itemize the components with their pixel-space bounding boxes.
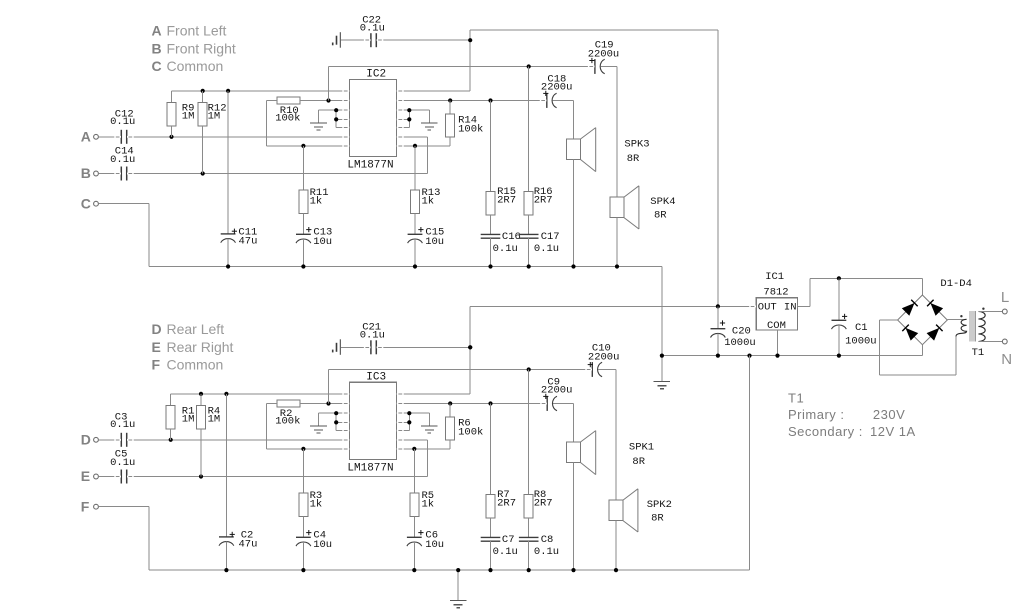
junction output1/R15 [488,98,492,102]
junction pin/R11 [301,144,305,148]
node label A legend [152,23,227,39]
label R13 value [422,187,441,207]
label T1 primary spec [788,407,905,422]
wire C common to ground bus [98,204,662,267]
label C7 value [493,534,518,558]
wire stub to C22 [341,39,371,41]
junction rear bus/ground [456,568,460,572]
label R15 value [497,186,516,206]
junction B/R12 [201,171,205,175]
resistor R6 [397,404,455,449]
junction bus/C15 [413,264,417,268]
junction bus/C13 [301,264,305,268]
node label C legend [152,58,224,74]
node B input terminal [81,165,99,181]
junction bus/C17 [527,264,531,268]
capacitor C1 (electrolytic) [832,278,847,355]
svg-text:1M: 1M [182,111,195,123]
junction left bracket pin4 [334,117,338,121]
label C20 value [720,320,756,349]
junction gnd/rear bus [747,354,751,358]
svg-text:10u: 10u [425,236,444,248]
node E input terminal [81,468,99,484]
svg-text:C: C [81,195,91,211]
svg-text:1000u: 1000u [724,337,756,349]
wire C3 to IC pin (net D) [127,439,349,441]
phase dot secondary [960,315,962,317]
svg-text:B: B [81,165,91,181]
svg-text:2R7: 2R7 [497,194,516,206]
svg-text:Rear Left: Rear Left [167,321,225,337]
pin gaps IC1 [749,306,804,308]
label C13 value [306,226,332,248]
label C19 value [588,39,620,63]
label R11 value [310,187,329,207]
junction E/R4 [199,474,203,478]
svg-text:1k: 1k [310,195,323,207]
svg-text:1k: 1k [422,498,435,510]
capacitor C22 [371,33,376,47]
node label E legend [152,339,234,355]
label C21 value [360,321,385,341]
svg-text:100k: 100k [275,415,300,427]
label C8 value [534,534,559,558]
svg-text:0.1u: 0.1u [360,22,385,34]
wire SPK4 to bus [616,218,618,267]
wire F common to ground bus [98,507,749,570]
svg-text:0.1u: 0.1u [493,243,518,255]
svg-text:Front Right: Front Right [167,40,236,56]
label R14 value [458,115,483,136]
capacitor C22 stub [333,32,341,48]
junction bias/C2 [224,392,228,396]
svg-text:2200u: 2200u [588,351,620,363]
junction C21/V+ riser [468,345,472,349]
svg-text:1M: 1M [182,414,195,426]
label R12 value [208,102,227,122]
label SPK3 value [624,139,649,165]
capacitor C18 (electrolytic) [547,93,557,108]
junction output2/R16 [527,64,531,68]
junction pin/R5 [412,447,416,451]
label R4 value [208,405,221,425]
diode D2 (top-right) [930,303,943,316]
svg-text:47u: 47u [239,235,258,247]
wire B input to C14 [98,173,121,175]
resistor R10 [267,97,350,104]
node D input terminal [81,431,99,447]
svg-text:E: E [152,339,161,355]
label C3 value [110,412,135,432]
resistor R9 [167,91,176,137]
speaker SPK4 [610,186,639,229]
junction R10/output2 riser [326,98,330,102]
junction output1/R6 [448,401,452,405]
wire IC3 V+ pin to decoupling rail [397,306,471,394]
junction OUT/C20 [716,304,720,308]
label C5 value [110,449,135,469]
svg-text:8R: 8R [632,456,645,468]
svg-text:8R: 8R [651,512,664,524]
capacitor C9 (electrolytic) [547,396,557,411]
wire A input to C12 [98,136,121,138]
transformer T1 secondary winding [956,319,967,336]
pin gaps IC3 [342,393,403,450]
junction gnd/COM [775,354,779,358]
wire C22 to V+ node [377,39,470,41]
label C1 value [842,314,877,348]
label C2 value [230,529,258,550]
wire C21 to V+ node [377,346,470,348]
wire C10 to SPK2 [598,370,616,501]
junction bus/SPK4 [615,264,619,268]
svg-text:1k: 1k [422,195,435,207]
wire stub to C21 [341,346,371,348]
capacitor C10 (electrolytic) [592,362,602,377]
resistor R7 capacitor C7 zobel [481,404,501,571]
capacitor C21 [371,340,376,354]
wire power ground bus [662,355,923,357]
resistor R1 [166,394,175,440]
svg-text:A: A [81,128,91,144]
resistor R15 capacitor C16 zobel [481,101,501,267]
svg-text:SPK2: SPK2 [647,499,672,511]
wire C12 to IC pin (net A) [127,136,349,138]
junction pin/R13 [413,144,417,148]
resistor R2 [267,400,350,407]
label R6 value [458,418,483,439]
junction left bracket pin4 [334,420,338,424]
wire IC2 left pins 3-5 bracket [319,110,350,127]
wire rear section V- feed [749,356,751,570]
wire output1 net [397,100,547,102]
phase dot primary [982,308,984,310]
wire IC3 left pins 3-5 bracket [319,413,350,430]
junction bus/SPK1 [571,568,575,572]
resistor R14 [397,101,455,146]
junction OUT/C21 riser [468,345,472,349]
label C14 value [110,146,135,166]
svg-text:SPK3: SPK3 [624,139,649,151]
junction left bracket pin3 [334,108,338,112]
svg-text:LM1877N: LM1877N [347,159,393,171]
svg-text:C: C [152,58,162,74]
diode D1 (top-left) [902,303,915,316]
ground rear amp [450,570,467,608]
wire C14 to IC right pin (net B) [127,137,427,174]
node L terminal [1001,289,1009,314]
junction bias/C11 [226,89,230,93]
resistor R8 capacitor C8 zobel [519,370,539,571]
ground IC3 left [310,426,327,433]
wire bias bus [172,90,350,92]
junction bias/R12 [201,89,205,93]
svg-text:1k: 1k [310,498,323,510]
label SPK1 value [629,442,654,468]
svg-text:1000u: 1000u [845,336,877,348]
wire top bus to power ground bus [661,267,663,356]
transformer T1 core [970,311,975,341]
svg-text:C17: C17 [541,231,560,243]
svg-text:8R: 8R [627,153,640,165]
svg-text:N: N [1001,351,1012,368]
svg-text:10u: 10u [313,236,332,248]
wire bridge AC left loop [880,320,956,375]
transformer T1 primary winding [978,312,985,342]
svg-text:Primary :: Primary : [788,407,845,422]
wire SPK2 to bus [615,521,617,570]
svg-text:IC1: IC1 [765,271,784,283]
svg-text:0.1u: 0.1u [534,546,559,558]
svg-text:C7: C7 [502,534,515,546]
svg-text:F: F [81,498,90,514]
label R5 value [422,490,435,510]
junction bus/SPK2 [614,568,618,572]
svg-text:T1: T1 [972,347,985,359]
junction A/R9 [169,135,173,139]
node label F legend [152,357,224,373]
svg-text:C1: C1 [855,322,868,334]
node F input terminal [81,498,99,514]
junction D/R1 [169,438,173,442]
label R1 value [182,405,195,425]
ground IC3 right [421,426,438,433]
label R10 value [275,105,300,125]
junction output1/R14 [448,98,452,102]
junction gnd bus/top amp bus [660,354,664,358]
wire IC1 COM to ground bus [777,330,779,356]
junction bus/C6 [412,568,416,572]
junction bus/C7 [488,568,492,572]
svg-text:100k: 100k [458,124,483,136]
node label B legend [152,40,236,56]
junction bus/C4 [301,568,305,572]
svg-text:47u: 47u [239,538,258,550]
svg-text:D1-D4: D1-D4 [940,278,972,290]
speaker SPK3 [567,128,596,172]
junction right bracket pin2 [407,117,411,121]
wire SPK1 to bus [573,463,575,571]
svg-text:2R7: 2R7 [497,497,516,509]
svg-text:LM1877N: LM1877N [347,462,393,474]
svg-text:1M: 1M [208,414,221,426]
svg-text:Common: Common [167,58,224,74]
svg-text:0.1u: 0.1u [110,116,135,128]
svg-text:F: F [152,357,161,373]
resistor R4 [197,394,206,477]
label C6 value [418,529,444,551]
label C12 value [110,109,135,129]
svg-text:100k: 100k [458,427,483,439]
svg-text:10u: 10u [425,539,444,551]
wire IC3 right pins bracket [397,413,430,430]
bridge rectifier frame D1-D4 [898,295,948,345]
resistor R16 capacitor C17 zobel [519,67,539,267]
svg-text:IC2: IC2 [366,69,386,81]
wire C5 to IC right pin (net E) [127,440,427,477]
capacitor C3 [121,433,126,447]
wire +12V OUT line [470,305,756,307]
wire output1 net [397,403,548,405]
svg-text:2R7: 2R7 [534,194,553,206]
junction bus/C11 [226,264,230,268]
label R3 value [310,490,323,510]
wire primary to L terminal [978,311,1002,313]
label C4 value [306,529,332,551]
svg-text:D: D [81,431,91,447]
svg-text:10u: 10u [313,539,332,551]
svg-text:100k: 100k [275,112,300,124]
svg-text:IN: IN [784,301,797,313]
svg-text:2R7: 2R7 [534,497,553,509]
resistor R12 [198,91,207,174]
wire SPK3 to bus [573,160,575,267]
wire R10 loop to pin7 [267,101,350,146]
svg-text:C20: C20 [732,325,751,337]
svg-text:SPK1: SPK1 [629,442,654,454]
op-amp IC3 (LM1877N power amp) [350,382,397,459]
svg-text:230V: 230V [873,407,905,422]
ground power supply [654,356,671,389]
svg-text:12V 1A: 12V 1A [870,424,916,439]
wire IC2 right pins bracket [397,110,430,127]
label C22 value [360,14,385,34]
wire C18 to SPK3 [552,101,573,140]
junction output1/R7 [488,401,492,405]
label C17 value [534,231,560,255]
wire C19 to SPK4 [601,67,618,198]
svg-text:IC3: IC3 [366,372,386,384]
wire IC2 V+ pin to decoupling rail [397,30,718,306]
op-amp IC2 (LM1877N power amp) [350,79,397,156]
diode D4 (bottom-right) [927,328,940,341]
capacitor C20 (electrolytic) [711,306,726,355]
wire IC1 IN to bridge [798,278,923,306]
wire output2 net riser and rail [329,67,595,101]
diode D3 (bottom-left) [906,328,919,341]
label R7 value [497,489,516,509]
svg-text:Secondary :: Secondary : [788,424,863,439]
junction gnd/C1 [837,354,841,358]
junction right bracket pin [407,108,411,112]
label C11 value [232,226,258,247]
wire E input to C5 [98,476,121,478]
pin gaps IC2 [342,90,403,147]
svg-text:0.1u: 0.1u [360,330,385,342]
svg-text:COM: COM [767,320,786,332]
junction pin/R3 [301,447,305,451]
junction right bracket pin2 [407,420,411,424]
capacitor C12 [121,130,126,144]
resistor R11 capacitor C13 branch [296,146,311,267]
junction output2/R8 [527,367,531,371]
svg-text:OUT: OUT [758,301,777,313]
junction C22/V+ riser [468,38,472,42]
wire output2 net riser and rail [329,370,593,404]
resistor R5 capacitor C6 branch [407,449,422,570]
junction bus/C8 [527,568,531,572]
speaker SPK2 [609,489,638,532]
label R9 value [182,102,195,122]
label T1 secondary spec [788,424,916,439]
svg-text:T1: T1 [788,390,804,405]
ground IC2 left [310,123,327,130]
wire R2 loop to pin7 [267,404,350,449]
capacitor C2 (electrolytic) [219,394,234,570]
wire primary to N terminal [978,341,1002,343]
node label D legend [152,321,225,337]
svg-text:E: E [81,468,90,484]
junction gnd/C20 [716,354,720,358]
label R16 value [534,186,553,206]
label C18 value [541,73,573,96]
capacitor C19 (electrolytic) [595,59,605,74]
svg-text:Front Left: Front Left [167,23,227,39]
svg-text:1M: 1M [208,111,221,123]
wire dash gaps at capacitor leads [114,39,594,477]
label SPK2 value [647,499,672,524]
junction bus/C2 [224,568,228,572]
ground IC2 right [421,123,438,130]
svg-text:A: A [152,23,162,39]
svg-text:B: B [152,40,162,56]
node N terminal [1001,339,1012,368]
junction left bracket pin3 [334,411,338,415]
label C16 value [493,231,521,255]
svg-text:L: L [1001,289,1009,306]
junction R2/output2 riser [326,401,330,405]
resistor R3 capacitor C4 branch [296,449,311,570]
svg-text:8R: 8R [654,209,667,221]
capacitor C5 [121,470,126,484]
label R2 value [275,408,300,428]
label R8 value [534,489,553,509]
junction IN/C1 [837,276,841,280]
svg-text:Rear Right: Rear Right [167,339,234,355]
svg-text:2200u: 2200u [588,48,620,60]
capacitor C21 stub [333,339,341,355]
regulator IC1 7812 [756,298,797,330]
svg-text:Common: Common [167,357,224,373]
junction bus/SPK3 [571,264,575,268]
svg-text:D: D [152,321,162,337]
wire bias bus [171,393,350,395]
capacitor C14 [121,167,126,181]
svg-text:0.1u: 0.1u [110,457,135,469]
svg-text:0.1u: 0.1u [493,546,518,558]
node C input terminal [81,195,99,211]
wire bridge bottom to ground bus [921,345,923,356]
label C15 value [418,226,444,248]
junction right bracket pin [407,411,411,415]
svg-text:C16: C16 [502,231,521,243]
svg-text:7812: 7812 [763,286,788,298]
resistor R13 capacitor C15 branch [408,146,423,267]
label SPK4 value [650,196,675,221]
node A input terminal [81,128,99,144]
svg-text:C8: C8 [541,534,554,546]
wire D input to C3 [98,439,121,441]
svg-text:SPK4: SPK4 [650,196,675,208]
wire bridge AC right to secondary [947,318,966,320]
svg-text:0.1u: 0.1u [110,154,135,166]
svg-text:0.1u: 0.1u [110,419,135,431]
junction bias/R4 [199,392,203,396]
label C10 value [588,342,620,367]
junction bus/C16 [488,264,492,268]
wire C9 to SPK1 [553,404,574,443]
capacitor C11 (electrolytic) [221,91,236,267]
